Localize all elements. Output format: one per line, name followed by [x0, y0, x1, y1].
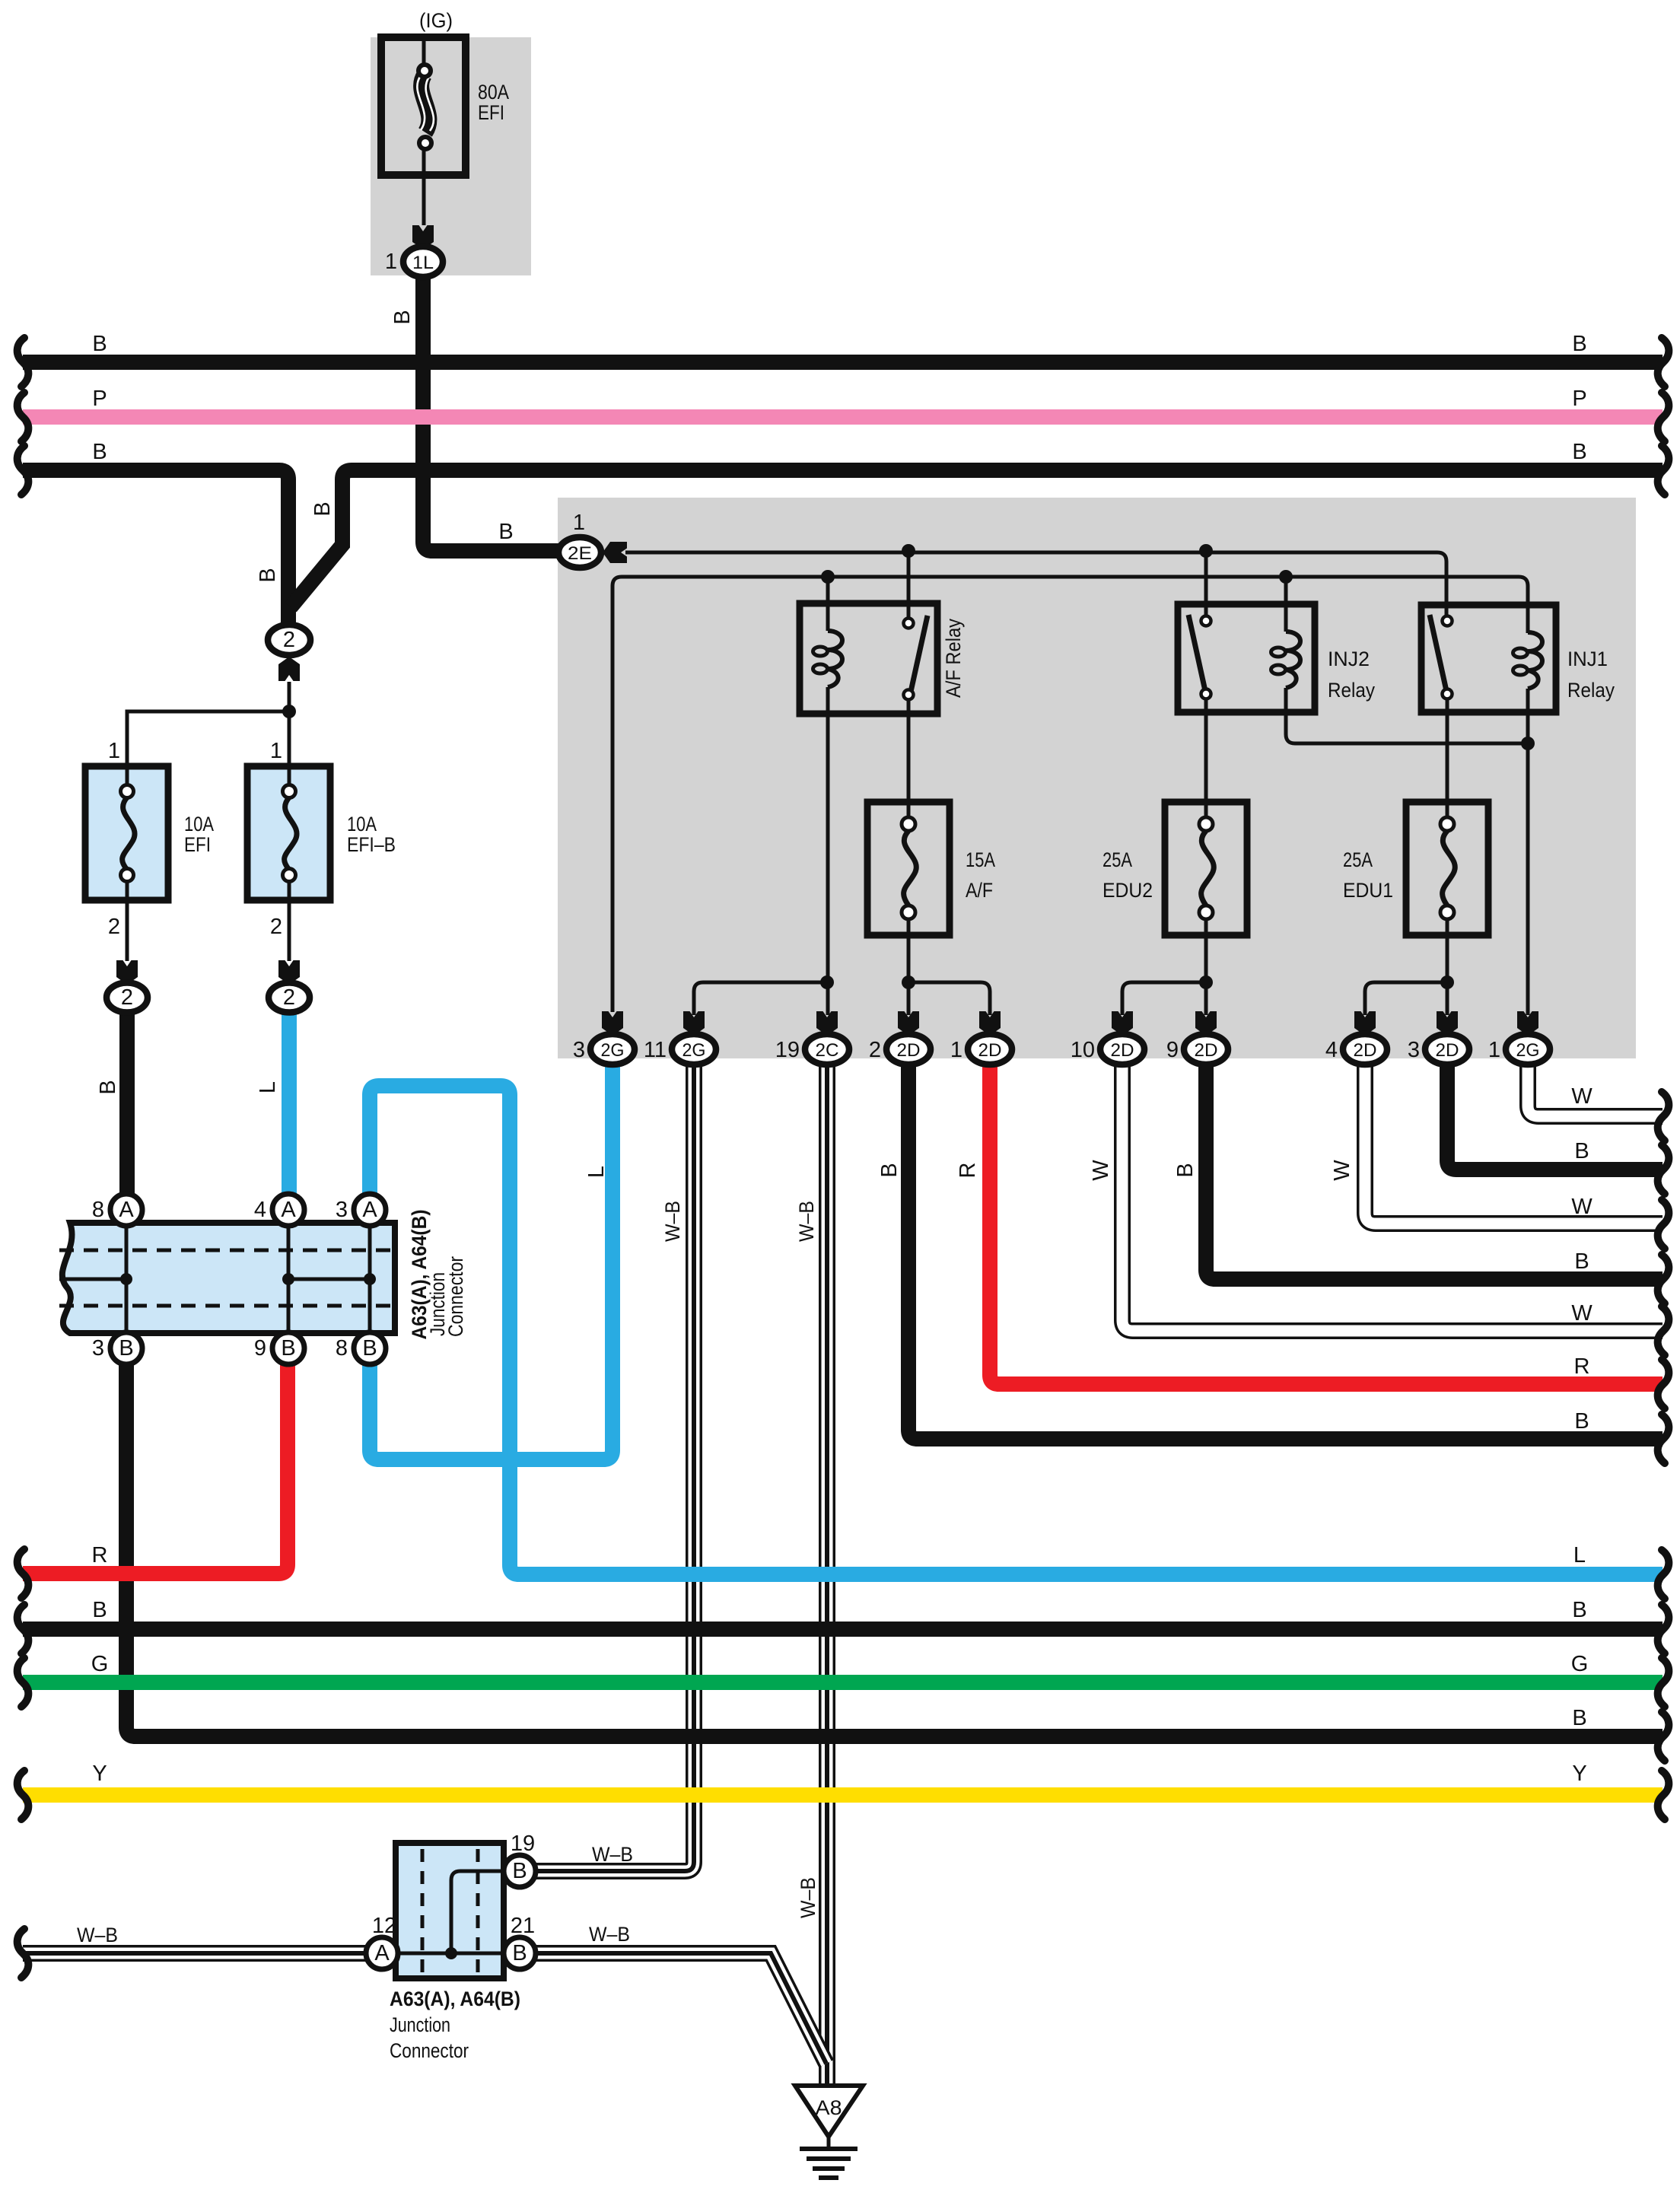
wire splice to 10A EFI-B fuse: [288, 711, 291, 786]
svg-text:10: 10: [1071, 1038, 1095, 1062]
node 2C-19/2G-11 branch: [820, 975, 834, 989]
svg-text:W: W: [1571, 1084, 1592, 1109]
ground A8: [795, 2086, 863, 2178]
svg-text:B: B: [1574, 1409, 1589, 1434]
INJ2 relay switch: [1188, 615, 1211, 699]
node 2D-3/2D-4 branch: [1440, 975, 1454, 989]
INJ1 relay box: [1421, 605, 1556, 712]
svg-text:2D: 2D: [1436, 1040, 1459, 1061]
svg-text:12: 12: [372, 1914, 396, 1938]
arrow down into EFI circle 2: [116, 960, 138, 985]
wire drop to INJ2 relay coil: [1284, 577, 1288, 632]
node INJ2 switch feed: [1199, 544, 1213, 558]
svg-text:10A: 10A: [184, 813, 214, 835]
fusible link element: [417, 65, 434, 149]
bus G green: [23, 1675, 1662, 1690]
wire R from 2D-1 to right harness: [990, 1065, 1662, 1384]
wire 10A EFI-B fuse bottom lead: [288, 876, 291, 961]
svg-text:2: 2: [121, 985, 133, 1010]
svg-text:Relay: Relay: [1328, 679, 1375, 702]
bus B lower full-width: [23, 1622, 1662, 1637]
svg-text:15A: 15A: [966, 848, 995, 871]
wire splice to 10A EFI fuse: [127, 711, 289, 786]
svg-text:3: 3: [573, 1038, 585, 1062]
A/F relay coil: [813, 631, 843, 687]
harness break marks left: [17, 338, 29, 1978]
svg-text:25A: 25A: [1102, 848, 1132, 871]
node 2D-9/2D-10 branch: [1199, 975, 1213, 989]
svg-text:A: A: [362, 1198, 377, 1222]
wire B bus drop right diagonal to circle 2: [291, 470, 1662, 607]
wire W-B from lower junction B21 to ground A8: [535, 1953, 826, 2064]
wire A/F relay coil to 2C-19: [826, 687, 830, 1015]
svg-text:B: B: [1572, 1598, 1586, 1622]
wire A/F relay switch to 15A fuse: [907, 699, 911, 818]
INJ1 relay coil: [1513, 632, 1543, 689]
svg-text:EFI–B: EFI–B: [347, 833, 396, 856]
node lower junction internal: [445, 1947, 457, 1959]
svg-text:11: 11: [644, 1038, 667, 1062]
svg-text:80A: 80A: [478, 81, 509, 103]
wire 15A fuse to 2D-2: [907, 918, 911, 1015]
svg-text:A/F Relay: A/F Relay: [942, 619, 965, 698]
wire 2E to relay switches feed: [625, 552, 1446, 616]
svg-text:B: B: [1572, 440, 1586, 464]
arrow up into circle 2: [278, 657, 300, 681]
connector 2 oval below 10A EFI: [107, 983, 148, 1013]
wire W from 2D-4 to right harness: [1365, 1065, 1662, 1224]
svg-text:W–B: W–B: [797, 1877, 819, 1918]
svg-text:2G: 2G: [1516, 1040, 1540, 1061]
svg-text:2G: 2G: [601, 1040, 625, 1061]
wire INJ1 relay switch to 25A EDU1 fuse: [1446, 699, 1449, 818]
svg-text:EDU2: EDU2: [1102, 879, 1153, 902]
svg-text:G: G: [91, 1652, 109, 1676]
svg-text:G: G: [1571, 1652, 1589, 1676]
svg-text:W–B: W–B: [592, 1843, 633, 1866]
wire branch 2D-1: [908, 982, 990, 1015]
svg-text:8: 8: [92, 1198, 104, 1222]
node INJ2 coil feed: [1279, 570, 1293, 584]
svg-text:2D: 2D: [1195, 1040, 1218, 1061]
node A/F coil feed: [821, 570, 835, 584]
svg-text:2D: 2D: [897, 1040, 921, 1061]
junction connector A63(A),A64(B) body (upper): [62, 1223, 395, 1333]
svg-text:1: 1: [108, 739, 120, 763]
svg-text:1L: 1L: [412, 253, 434, 273]
fuse 10A EFI-B element: [283, 785, 297, 882]
A/F relay switch: [904, 616, 928, 700]
svg-text:EDU1: EDU1: [1343, 879, 1393, 902]
lower junction connector pin circles: [366, 1855, 536, 1969]
connector 2 oval below 10A EFI-B: [269, 983, 310, 1013]
svg-text:A63(A), A64(B): A63(A), A64(B): [390, 1988, 520, 2010]
arrow down into EFI-B circle 2: [278, 960, 300, 985]
svg-text:B: B: [877, 1163, 902, 1177]
svg-text:B: B: [310, 501, 335, 516]
fuse 10A EFI element: [121, 785, 135, 882]
wire B from circle 2 to junction A8: [119, 1011, 135, 1195]
arrow down into 1L: [412, 225, 434, 250]
svg-text:2: 2: [270, 915, 282, 939]
svg-text:9: 9: [1166, 1038, 1179, 1062]
svg-text:W–B: W–B: [661, 1201, 684, 1242]
fuse 25A EDU1 box: [1406, 802, 1488, 935]
svg-text:W: W: [1089, 1160, 1113, 1181]
svg-text:W–B: W–B: [589, 1923, 630, 1946]
svg-text:W: W: [1571, 1195, 1592, 1219]
svg-text:INJ1: INJ1: [1567, 648, 1608, 670]
arrow left into 2E: [603, 542, 627, 563]
wire 25A EDU1 fuse to 2D-3: [1446, 918, 1449, 1015]
svg-text:A: A: [374, 1941, 390, 1965]
connector 1L oval: [403, 247, 443, 277]
svg-text:2E: 2E: [568, 543, 592, 564]
svg-text:B: B: [96, 1080, 120, 1094]
grey panel engine-room relay/fuse block: [558, 498, 1636, 1058]
svg-text:B: B: [512, 1859, 527, 1883]
fuse 25A EDU2 element: [1199, 817, 1214, 919]
node INJ coils join: [1521, 737, 1535, 750]
svg-text:1: 1: [385, 250, 397, 274]
svg-text:B: B: [92, 1598, 107, 1622]
svg-text:B: B: [362, 1336, 377, 1361]
svg-text:Connector: Connector: [444, 1256, 467, 1337]
svg-text:L: L: [256, 1081, 280, 1093]
svg-text:B: B: [1572, 1706, 1586, 1730]
svg-text:4: 4: [254, 1198, 266, 1222]
svg-text:2C: 2C: [816, 1040, 839, 1061]
svg-text:(IG): (IG): [419, 9, 453, 32]
bus B top first: [23, 355, 1662, 370]
fuse 25A EDU1 element: [1440, 817, 1455, 919]
node junction internal A8: [120, 1273, 132, 1285]
junction connector internal wire A3-B8: [368, 1226, 372, 1332]
svg-text:2D: 2D: [1354, 1040, 1377, 1061]
svg-text:R: R: [1574, 1354, 1590, 1379]
wire B from junction B3 to right harness: [126, 1364, 1662, 1736]
lower junction connector dashed line 2: [476, 1849, 480, 1973]
node splice below circle 2: [282, 705, 296, 718]
svg-text:B: B: [498, 520, 513, 544]
junction connector internal bus right: [288, 1278, 370, 1281]
svg-text:L: L: [1573, 1543, 1586, 1567]
A/F relay box: [800, 603, 937, 714]
fuse 10A EFI body: [85, 766, 168, 900]
wire drop to A/F relay coil: [826, 577, 830, 631]
wire branch 2G-11: [694, 982, 827, 1015]
wire 2G-3 coil feed line: [612, 577, 1528, 1012]
svg-text:B: B: [1574, 1249, 1589, 1274]
arrows down into connector row: [602, 1011, 1538, 1036]
svg-text:A/F: A/F: [966, 879, 993, 902]
svg-text:W: W: [1571, 1301, 1592, 1326]
svg-text:1: 1: [1488, 1038, 1500, 1062]
lower junction connector dashed line 1: [421, 1849, 425, 1973]
INJ1 relay switch: [1430, 615, 1452, 699]
svg-text:Junction: Junction: [390, 2013, 450, 2036]
connector row ovals: [590, 1034, 1550, 1065]
wire W-B from 2G-11 to lower junction B19: [535, 1065, 694, 1871]
wire drop to INJ2 relay switch: [1204, 552, 1208, 616]
svg-text:B: B: [281, 1336, 295, 1361]
svg-text:3: 3: [336, 1198, 348, 1222]
wire B from 2D-3 to right harness: [1447, 1065, 1662, 1170]
wire branch 2D-4: [1365, 982, 1447, 1015]
node junction internal A4: [282, 1273, 294, 1285]
svg-text:2: 2: [283, 985, 295, 1010]
wire L loop from junction A3 to right harness L bus: [370, 1086, 1662, 1574]
junction connector internal wire A4-B9: [287, 1226, 291, 1332]
svg-text:2G: 2G: [682, 1040, 706, 1061]
svg-text:4: 4: [1325, 1038, 1338, 1062]
svg-text:B: B: [1572, 332, 1586, 356]
wire fusible-link top lead: [422, 37, 426, 65]
wire B from 1L down and to 2E: [423, 275, 560, 551]
svg-text:A8: A8: [816, 2096, 842, 2119]
fusible link 80A EFI box: [381, 37, 466, 175]
wire INJ2 relay switch to 25A EDU2 fuse: [1204, 699, 1208, 818]
svg-text:B: B: [92, 440, 107, 464]
junction connector dashed line 1: [59, 1249, 395, 1252]
bus Y yellow: [23, 1787, 1662, 1803]
svg-text:2: 2: [869, 1038, 881, 1062]
wire branch 2D-10: [1122, 982, 1206, 1015]
svg-text:P: P: [92, 387, 107, 411]
svg-text:A: A: [119, 1198, 134, 1222]
svg-text:2: 2: [283, 628, 295, 652]
svg-text:1: 1: [950, 1038, 963, 1062]
bus P pink: [23, 409, 1662, 425]
lower junction connector internal wire B19: [451, 1871, 504, 1953]
svg-text:R: R: [92, 1543, 108, 1567]
wire 25A EDU2 fuse to 2D-9: [1204, 918, 1208, 1015]
svg-text:1: 1: [270, 739, 282, 763]
fuse 25A EDU2 box: [1165, 802, 1247, 935]
wire L from circle 2 to junction A4: [282, 1011, 297, 1195]
wire INJ2 relay coil to INJ1 coil join: [1286, 688, 1528, 743]
svg-text:8: 8: [336, 1336, 348, 1361]
svg-text:L: L: [584, 1166, 609, 1178]
svg-text:25A: 25A: [1343, 848, 1373, 871]
svg-text:2D: 2D: [978, 1040, 1002, 1061]
svg-text:19: 19: [775, 1038, 800, 1062]
wire R from junction B9 to left harness: [23, 1364, 288, 1574]
svg-text:2: 2: [108, 915, 120, 939]
connector circle 2 oval: [268, 625, 310, 655]
svg-text:B: B: [1173, 1163, 1198, 1177]
fuse 15A A/F element: [902, 817, 916, 919]
svg-text:10A: 10A: [347, 813, 377, 835]
node junction internal A3: [364, 1273, 376, 1285]
svg-text:2D: 2D: [1111, 1040, 1134, 1061]
wire drop to A/F relay switch: [907, 552, 911, 619]
svg-text:21: 21: [511, 1914, 535, 1938]
svg-text:Connector: Connector: [390, 2039, 469, 2062]
INJ2 relay coil: [1271, 632, 1301, 688]
wire B bus drop left to circle 2: [23, 470, 288, 627]
svg-text:Relay: Relay: [1567, 679, 1615, 702]
wire W from 2D-10 to right harness: [1122, 1065, 1662, 1331]
svg-text:3: 3: [1408, 1038, 1420, 1062]
junction connector pin circles upper: [110, 1194, 386, 1364]
wire W-B left harness to lower junction A12: [23, 1945, 367, 1962]
wire circle-2 to splice dot: [288, 682, 291, 711]
svg-text:INJ2: INJ2: [1328, 648, 1370, 670]
junction connector A63(A),A64(B) body (lower): [396, 1843, 504, 1978]
wire B from 2D-2 to right harness: [908, 1065, 1662, 1439]
svg-text:EFI: EFI: [184, 833, 211, 856]
svg-text:B: B: [390, 310, 415, 324]
grey panel around 80A EFI fusible link: [371, 37, 531, 275]
junction connector internal wire A8-B3: [125, 1226, 129, 1332]
INJ2 relay box: [1178, 604, 1315, 712]
fuse 15A A/F box: [867, 802, 950, 935]
svg-text:W–B: W–B: [795, 1201, 818, 1242]
svg-text:A: A: [281, 1198, 296, 1222]
harness break marks right: [1658, 338, 1669, 1819]
svg-text:Y: Y: [92, 1762, 107, 1786]
svg-text:B: B: [256, 568, 280, 582]
svg-text:B: B: [92, 332, 107, 356]
lower junction connector internal wire A12-B21: [398, 1952, 504, 1956]
fuse 10A EFI-B body: [247, 766, 330, 900]
svg-text:P: P: [1572, 387, 1586, 411]
wire INJ1 relay coil to 2G-1: [1526, 689, 1530, 1015]
svg-text:B: B: [1574, 1139, 1589, 1163]
svg-text:3: 3: [92, 1336, 104, 1361]
wire fusible-link bottom lead to arrow: [422, 149, 426, 225]
node A/F switch feed: [902, 544, 915, 558]
svg-text:W–B: W–B: [77, 1924, 118, 1946]
wire L from junction B8 to 2G-3: [370, 1065, 612, 1459]
svg-text:R: R: [956, 1163, 980, 1179]
svg-text:Y: Y: [1572, 1762, 1586, 1786]
svg-text:B: B: [512, 1941, 527, 1965]
wire W-B from 2C-19 to ground A8: [819, 1065, 835, 2086]
svg-text:EFI: EFI: [478, 101, 504, 124]
svg-text:1: 1: [573, 511, 585, 535]
svg-text:B: B: [119, 1336, 133, 1361]
wire 10A EFI fuse bottom lead: [126, 876, 129, 961]
junction connector dashed line 2: [59, 1304, 395, 1308]
svg-text:9: 9: [254, 1336, 266, 1361]
svg-text:19: 19: [511, 1832, 535, 1856]
wire B from 2D-9 to right harness: [1206, 1065, 1662, 1279]
node 2D-2/2D-1 branch: [902, 975, 915, 989]
connector 2E oval: [558, 537, 601, 568]
svg-text:W: W: [1330, 1160, 1354, 1181]
junction connector internal bus left: [59, 1278, 126, 1281]
wire W from 2G-1 to right harness: [1528, 1065, 1662, 1116]
